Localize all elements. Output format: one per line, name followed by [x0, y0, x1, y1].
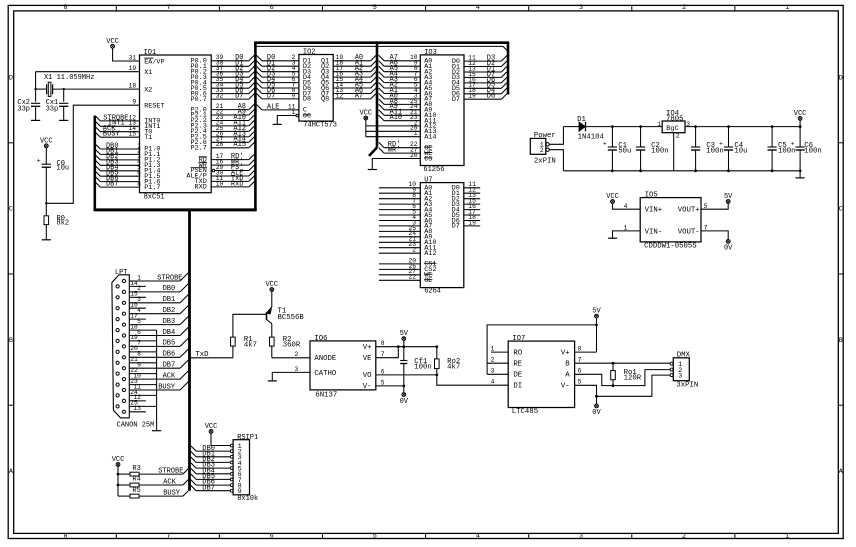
svg-text:2xPIN: 2xPIN — [534, 158, 556, 166]
svg-text:31: 31 — [129, 54, 137, 61]
svg-text:+: + — [603, 141, 607, 148]
svg-text:1: 1 — [292, 109, 296, 116]
svg-text:33p: 33p — [17, 105, 30, 113]
svg-text:DMX: DMX — [677, 352, 691, 360]
svg-text:ACK: ACK — [163, 372, 176, 380]
svg-text:10: 10 — [216, 180, 224, 187]
svg-text:DE: DE — [513, 372, 522, 380]
svg-text:P1.7: P1.7 — [144, 184, 160, 192]
svg-text:12: 12 — [336, 92, 344, 99]
svg-text:CS: CS — [424, 155, 432, 163]
svg-text:VCC: VCC — [112, 456, 125, 464]
svg-text:V-: V- — [561, 383, 570, 391]
svg-text:A10: A10 — [390, 114, 403, 122]
svg-text:A7: A7 — [355, 92, 363, 100]
svg-text:LPT: LPT — [115, 269, 128, 277]
svg-text:WR': WR' — [388, 147, 401, 155]
svg-text:23: 23 — [130, 378, 138, 385]
svg-text:IO3: IO3 — [424, 49, 437, 57]
svg-text:X1 11.059MHz: X1 11.059MHz — [44, 74, 94, 82]
svg-text:8: 8 — [381, 340, 385, 347]
svg-text:Power: Power — [534, 132, 556, 140]
svg-text:5V: 5V — [400, 330, 409, 338]
svg-text:360R: 360R — [283, 341, 301, 349]
svg-text:4: 4 — [476, 4, 480, 12]
svg-text:C: C — [839, 206, 843, 214]
svg-text:8: 8 — [63, 4, 67, 12]
svg-text:RXD: RXD — [195, 184, 207, 192]
svg-text:18: 18 — [129, 82, 137, 89]
svg-text:21: 21 — [130, 356, 138, 363]
svg-text:5: 5 — [578, 379, 582, 386]
svg-text:2: 2 — [682, 4, 686, 12]
svg-text:EA/VP: EA/VP — [144, 58, 164, 66]
svg-text:T1: T1 — [144, 134, 152, 142]
svg-text:20: 20 — [130, 345, 138, 352]
svg-text:5: 5 — [381, 379, 385, 386]
svg-text:B: B — [565, 361, 570, 369]
svg-text:2: 2 — [412, 247, 416, 254]
svg-text:VIN-: VIN- — [645, 228, 663, 236]
svg-text:B: B — [839, 337, 843, 345]
svg-text:100n: 100n — [414, 363, 432, 371]
svg-text:61256: 61256 — [423, 166, 444, 174]
svg-text:BUSY: BUSY — [103, 131, 121, 139]
svg-text:7: 7 — [167, 532, 171, 540]
svg-text:5V: 5V — [592, 308, 601, 316]
svg-text:6: 6 — [270, 532, 274, 540]
svg-text:IO5: IO5 — [645, 192, 658, 200]
svg-text:50u: 50u — [618, 148, 631, 156]
svg-text:RESET: RESET — [144, 103, 164, 111]
svg-text:8xC51: 8xC51 — [144, 194, 165, 202]
svg-text:2: 2 — [682, 532, 686, 540]
svg-text:BUSY: BUSY — [158, 383, 176, 391]
svg-text:D7: D7 — [235, 93, 243, 101]
svg-text:R5: R5 — [132, 487, 140, 495]
svg-text:8x10k: 8x10k — [237, 495, 258, 503]
svg-text:VCC: VCC — [794, 110, 807, 118]
svg-text:5: 5 — [373, 4, 377, 12]
svg-text:DI: DI — [513, 383, 522, 391]
svg-text:DB7: DB7 — [202, 484, 215, 492]
svg-text:A15: A15 — [233, 141, 246, 149]
svg-text:3: 3 — [579, 4, 583, 12]
svg-text:VCC: VCC — [40, 137, 53, 145]
svg-text:3xPIN: 3xPIN — [676, 382, 698, 390]
svg-text:22: 22 — [408, 274, 416, 281]
svg-text:STROBE: STROBE — [158, 468, 183, 476]
svg-text:DB7: DB7 — [163, 362, 176, 370]
svg-text:2: 2 — [295, 351, 299, 358]
svg-text:4: 4 — [491, 379, 495, 386]
svg-text:4k7: 4k7 — [244, 341, 257, 349]
svg-text:V+: V+ — [561, 350, 570, 358]
svg-text:1: 1 — [785, 532, 789, 540]
svg-text:VOUT+: VOUT+ — [678, 207, 700, 215]
svg-text:22: 22 — [130, 367, 138, 374]
svg-text:74HCT573: 74HCT573 — [303, 122, 337, 130]
svg-text:9: 9 — [132, 99, 136, 106]
svg-text:TxD: TxD — [195, 351, 209, 359]
svg-text:3: 3 — [491, 368, 495, 375]
svg-text:A: A — [565, 372, 570, 380]
svg-text:10u: 10u — [57, 164, 70, 172]
svg-text:120R: 120R — [624, 375, 642, 383]
svg-text:19: 19 — [468, 219, 476, 226]
svg-text:X1: X1 — [144, 69, 152, 77]
svg-text:CATHO: CATHO — [314, 370, 337, 378]
svg-text:DB5: DB5 — [163, 340, 176, 348]
svg-text:RSIP1: RSIP1 — [237, 434, 258, 442]
svg-text:7: 7 — [578, 356, 582, 363]
svg-text:P2.7: P2.7 — [190, 145, 206, 153]
svg-text:15: 15 — [130, 291, 138, 298]
svg-text:BUSY: BUSY — [163, 490, 181, 498]
svg-text:B: B — [9, 337, 13, 345]
svg-text:24: 24 — [130, 389, 138, 396]
svg-text:+: + — [719, 141, 723, 148]
svg-text:RO: RO — [513, 350, 522, 358]
svg-text:D7: D7 — [267, 92, 275, 100]
svg-text:VE: VE — [363, 355, 372, 363]
svg-text:DB1: DB1 — [163, 296, 176, 304]
svg-text:3: 3 — [579, 532, 583, 540]
svg-text:RxD: RxD — [231, 180, 244, 188]
svg-text:LTC485: LTC485 — [512, 408, 538, 416]
svg-text:33p: 33p — [46, 105, 59, 113]
svg-text:D8: D8 — [303, 96, 311, 104]
svg-text:1: 1 — [785, 4, 789, 12]
svg-text:CDDDW1-0505S: CDDDW1-0505S — [644, 242, 697, 250]
svg-text:5: 5 — [704, 203, 708, 210]
svg-text:6N137: 6N137 — [315, 392, 337, 400]
svg-text:25: 25 — [130, 400, 138, 407]
svg-text:9: 9 — [292, 92, 296, 99]
svg-text:8: 8 — [63, 532, 67, 540]
svg-text:17: 17 — [130, 312, 138, 319]
svg-text:7: 7 — [704, 225, 708, 232]
svg-text:28: 28 — [216, 141, 224, 148]
svg-text:8: 8 — [137, 180, 141, 187]
svg-text:6: 6 — [270, 4, 274, 12]
svg-text:1: 1 — [657, 121, 661, 128]
svg-text:D1: D1 — [577, 116, 586, 124]
svg-text:ALE: ALE — [267, 103, 280, 111]
svg-text:+: + — [37, 158, 41, 165]
svg-text:VO: VO — [363, 372, 372, 380]
svg-text:OC: OC — [303, 112, 311, 120]
svg-text:X2: X2 — [144, 86, 152, 94]
svg-text:7: 7 — [381, 351, 385, 358]
svg-text:VCC: VCC — [205, 423, 218, 431]
svg-text:7: 7 — [167, 4, 171, 12]
svg-text:9: 9 — [238, 488, 242, 496]
svg-text:OE: OE — [424, 277, 432, 285]
svg-text:20: 20 — [410, 152, 418, 159]
svg-text:D7: D7 — [452, 96, 460, 104]
svg-text:6264: 6264 — [424, 288, 441, 296]
svg-text:U7: U7 — [424, 177, 432, 185]
svg-text:DB2: DB2 — [163, 307, 176, 315]
svg-text:19: 19 — [130, 334, 138, 341]
svg-text:VCC: VCC — [359, 110, 372, 118]
svg-text:R4: R4 — [132, 476, 140, 484]
svg-text:8k2: 8k2 — [57, 219, 70, 227]
svg-text:R3: R3 — [132, 465, 140, 473]
svg-text:+: + — [791, 141, 795, 148]
svg-text:6: 6 — [578, 368, 582, 375]
svg-text:IO6: IO6 — [314, 335, 327, 343]
svg-text:RE: RE — [513, 361, 522, 369]
svg-text:3: 3 — [678, 373, 682, 381]
svg-text:5V: 5V — [724, 193, 733, 201]
svg-text:16: 16 — [130, 302, 138, 309]
svg-text:18: 18 — [130, 323, 138, 330]
svg-text:14: 14 — [130, 280, 138, 287]
svg-text:19: 19 — [129, 65, 137, 72]
svg-text:15: 15 — [128, 131, 136, 138]
svg-text:0V: 0V — [724, 245, 733, 253]
svg-text:A14: A14 — [424, 134, 436, 142]
svg-text:100n: 100n — [706, 148, 724, 156]
svg-text:2: 2 — [676, 132, 680, 139]
svg-text:DB6: DB6 — [163, 351, 176, 359]
svg-text:0V: 0V — [592, 409, 601, 417]
svg-text:100n: 100n — [804, 148, 822, 156]
svg-text:1: 1 — [624, 225, 628, 232]
svg-text:STROBE: STROBE — [157, 274, 182, 282]
svg-text:D: D — [839, 75, 843, 83]
svg-text:DB4: DB4 — [163, 329, 176, 337]
svg-text:100n: 100n — [651, 148, 669, 156]
svg-text:CANON 25M: CANON 25M — [117, 422, 155, 430]
svg-text:0V: 0V — [400, 398, 409, 406]
svg-text:D: D — [9, 75, 13, 83]
svg-text:D7: D7 — [452, 223, 460, 231]
svg-text:7805: 7805 — [666, 116, 684, 124]
svg-text:3: 3 — [686, 121, 690, 128]
svg-text:3: 3 — [295, 366, 299, 373]
svg-text:6: 6 — [381, 368, 385, 375]
svg-text:P0.7: P0.7 — [190, 96, 206, 104]
svg-text:A12: A12 — [424, 250, 436, 258]
svg-text:DB3: DB3 — [163, 318, 176, 326]
svg-text:1: 1 — [491, 345, 495, 352]
svg-text:100n: 100n — [778, 148, 796, 156]
svg-text:V-: V- — [363, 383, 372, 391]
svg-text:VCC: VCC — [265, 281, 278, 289]
svg-text:19: 19 — [468, 93, 476, 100]
svg-text:2: 2 — [540, 147, 544, 154]
svg-text:8: 8 — [578, 345, 582, 352]
svg-text:IO2: IO2 — [303, 49, 316, 57]
svg-text:VCC: VCC — [606, 193, 619, 201]
svg-text:IO7: IO7 — [512, 335, 525, 343]
svg-text:5: 5 — [373, 532, 377, 540]
svg-text:VOUT-: VOUT- — [678, 228, 700, 236]
svg-text:4: 4 — [624, 203, 628, 210]
svg-text:1N4104: 1N4104 — [578, 134, 605, 142]
svg-text:C: C — [9, 206, 13, 214]
svg-text:32: 32 — [216, 93, 224, 100]
svg-text:D0: D0 — [487, 93, 495, 101]
svg-text:Q8: Q8 — [321, 96, 329, 104]
svg-text:V+: V+ — [363, 344, 372, 352]
svg-text:IO1: IO1 — [144, 49, 157, 57]
svg-text:10u: 10u — [734, 148, 747, 156]
svg-text:VCC: VCC — [106, 38, 119, 46]
svg-text:DB7: DB7 — [106, 180, 119, 188]
svg-text:DB0: DB0 — [163, 285, 176, 293]
svg-text:4: 4 — [476, 532, 480, 540]
svg-text:4k7: 4k7 — [447, 363, 460, 371]
svg-text:ACK: ACK — [163, 479, 176, 487]
svg-text:VIN+: VIN+ — [645, 207, 663, 215]
svg-text:1: 1 — [414, 130, 418, 137]
svg-text:BC556B: BC556B — [278, 314, 305, 322]
svg-text:2: 2 — [491, 356, 495, 363]
svg-text:ANODE: ANODE — [314, 355, 336, 363]
